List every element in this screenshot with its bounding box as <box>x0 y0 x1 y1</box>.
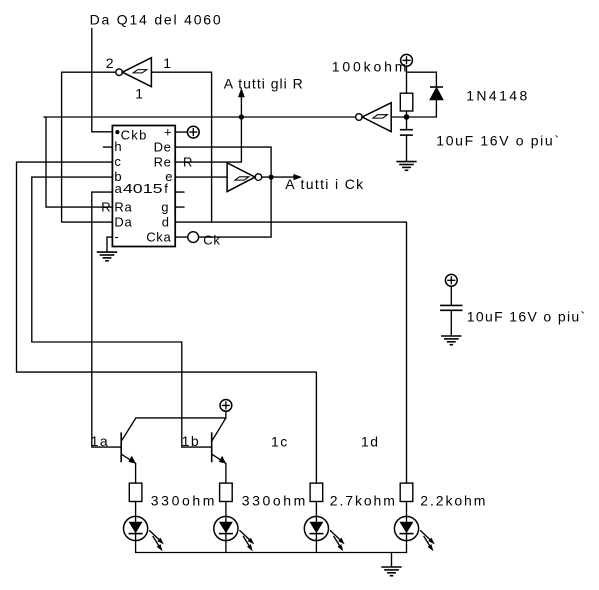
ground under C1 <box>396 162 416 171</box>
svg-text:1N4148: 1N4148 <box>466 88 529 104</box>
svg-text:1a: 1a <box>91 433 110 449</box>
svg-text:Cka: Cka <box>146 229 171 244</box>
wire collectors rail to power <box>136 411 226 418</box>
capacitor C1 10uF <box>400 117 413 161</box>
power symbol above C2 <box>445 274 457 286</box>
pin circle Cka <box>188 232 199 243</box>
power symbol at IC plus pin <box>175 131 187 133</box>
resistor R1 100kohm <box>400 93 413 111</box>
wire Cka circle to IC <box>175 236 188 238</box>
svg-text:1c: 1c <box>271 433 289 449</box>
wire U2 input from d column <box>151 72 211 222</box>
wire R1 to node <box>406 111 408 117</box>
wire net a: pin a to transistor 1a base <box>92 192 121 447</box>
svg-text:g: g <box>161 199 168 214</box>
svg-text:+: + <box>164 124 172 139</box>
wire U2 output to Da column <box>62 72 116 222</box>
wire d pin to 1d column and U2 input column <box>175 222 406 483</box>
LED 1c <box>304 502 344 553</box>
wire reset rail to U4 output <box>44 116 356 118</box>
svg-text:1: 1 <box>135 85 143 101</box>
svg-text:Ck: Ck <box>203 233 220 248</box>
junction node R1/C1/D1/U4 <box>404 114 410 120</box>
wire D1 anode to node <box>407 100 437 117</box>
junction U3 output / De-Cka column <box>269 175 274 180</box>
svg-text:100kohm: 100kohm <box>332 59 410 75</box>
LED 1a <box>124 502 164 553</box>
svg-text:2.2kohm: 2.2kohm <box>420 493 487 509</box>
diode D1 1N4148 <box>430 87 443 100</box>
svg-text:A tutti gli R: A tutti gli R <box>224 75 304 91</box>
resistor 330ohm (1a) <box>129 483 142 501</box>
svg-text:330ohm: 330ohm <box>242 493 308 509</box>
wire De pin to Cka via right column <box>175 147 271 237</box>
svg-text:A tutti i Ck: A tutti i Ck <box>285 176 364 192</box>
svg-text:2.7kohm: 2.7kohm <box>330 493 397 509</box>
svg-text:Re: Re <box>154 154 172 169</box>
pin stub f <box>175 191 184 193</box>
power symbol above R1 <box>401 54 413 66</box>
svg-text:d: d <box>162 214 169 229</box>
capacitor C2 10uF <box>440 286 462 336</box>
svg-text:Da: Da <box>114 214 132 229</box>
resistor 2.7kohm (1c) <box>310 483 323 501</box>
svg-text:1: 1 <box>163 55 171 71</box>
svg-text:a: a <box>115 181 123 196</box>
resistor 2.2kohm (1d) <box>400 483 413 501</box>
svg-text:10uF 16V o piu`: 10uF 16V o piu` <box>467 308 587 324</box>
node arrow A tutti gli R <box>238 88 245 117</box>
op-amp U4 schmitt inverter (reset driver) <box>356 103 392 132</box>
wire bottom rail <box>136 552 407 554</box>
wire from Q14 label down to Ckb pin <box>92 29 113 132</box>
svg-text:R: R <box>183 154 192 169</box>
pin stub h <box>103 146 112 148</box>
op-amp U2 schmitt inverter gate 1 <box>116 58 152 87</box>
op-amp U3 schmitt inverter (Ck driver) <box>227 163 262 192</box>
clock dot marker Ckb <box>115 130 119 134</box>
wire net Ra: pin Ra up to reset rail <box>46 117 112 207</box>
ground main <box>381 553 401 576</box>
node arrow A tutti i Ck <box>262 174 302 180</box>
resistor 330ohm (1b) <box>220 483 233 501</box>
wire Re pin to reset rail <box>175 117 241 162</box>
transistor Q1b <box>212 418 227 464</box>
svg-text:De: De <box>154 140 172 155</box>
LED 1b <box>214 502 254 553</box>
svg-text:4015: 4015 <box>123 182 163 196</box>
svg-text:330ohm: 330ohm <box>151 493 217 509</box>
svg-text:Ckb: Ckb <box>121 127 148 142</box>
svg-text:c: c <box>114 154 121 169</box>
svg-text:Ra: Ra <box>114 199 132 214</box>
wire Q1a emitter to resistor <box>135 463 137 483</box>
ground under C2 <box>441 336 461 345</box>
svg-text:-: - <box>114 229 118 244</box>
wire Q1b emitter to resistor <box>225 463 227 483</box>
junction reset rail / arrow / Re <box>239 114 244 119</box>
svg-text:1b: 1b <box>182 433 201 449</box>
svg-text:Da Q14 del 4060: Da Q14 del 4060 <box>90 12 223 28</box>
svg-text:h: h <box>114 139 121 154</box>
ground at IC minus pin <box>107 237 112 252</box>
wire e pin to U3 input <box>175 176 227 178</box>
svg-text:R: R <box>101 199 110 214</box>
wire net c: pin c to LED 1c resistor <box>17 162 317 483</box>
wire power to R1 <box>406 66 408 93</box>
wire U4 input from node <box>391 116 406 118</box>
pin stub g <box>175 206 184 208</box>
svg-text:f: f <box>164 181 168 196</box>
power symbol at transistor collectors <box>220 400 232 412</box>
LED 1d <box>394 502 434 553</box>
wire net b: pin b to transistor 1b base <box>32 177 212 447</box>
transistor Q1a <box>121 418 136 464</box>
IC U1 4015 body <box>112 126 175 247</box>
svg-text:2: 2 <box>106 55 114 71</box>
svg-text:1d: 1d <box>361 433 380 449</box>
svg-text:10uF 16V o piu`: 10uF 16V o piu` <box>436 132 560 148</box>
wire branch to diode D1 <box>407 72 437 87</box>
